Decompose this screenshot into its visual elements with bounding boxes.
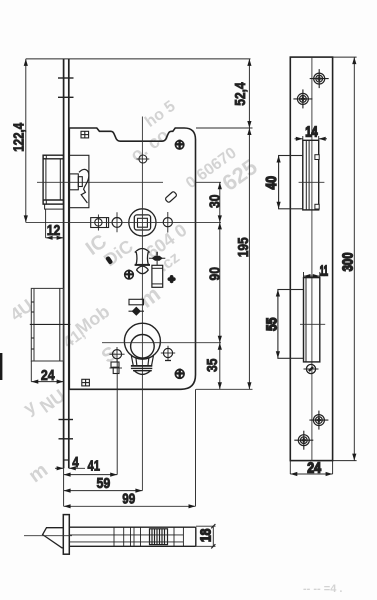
svg-text:4U: 4U	[6, 295, 36, 325]
dimension 59	[64, 489, 143, 493]
phillips screw top-right	[175, 140, 184, 149]
lock body outline	[69, 128, 195, 389]
latch spring lever curve	[79, 169, 89, 203]
top extension line	[26, 58, 251, 60]
screw hole bottom-1	[309, 411, 328, 430]
faceplate break ticks	[58, 78, 74, 460]
screw hole top-1	[310, 69, 329, 88]
latch centerline	[37, 181, 163, 183]
deadbolt opening 55 box	[276, 290, 304, 359]
svg-text:12: 12	[47, 222, 61, 239]
cylinder screw circle right	[161, 346, 175, 361]
svg-text:90: 90	[206, 267, 223, 281]
svg-text:24: 24	[307, 460, 321, 477]
faceplate bar	[63, 515, 69, 555]
tilted ink blob	[105, 256, 113, 265]
small circle above hub	[137, 155, 150, 163]
deadbolt head (protruding left, hidden lines)	[31, 288, 63, 361]
svg-text:41: 41	[88, 457, 101, 474]
svg-text:195: 195	[235, 237, 252, 257]
body bottom extension	[196, 388, 253, 390]
body top extension	[196, 127, 253, 129]
svg-text:35: 35	[204, 358, 221, 372]
dimension 30 90 35 column	[218, 182, 222, 389]
svg-text:40: 40	[263, 176, 280, 190]
square screw hole bottom-left	[82, 379, 90, 386]
svg-text:300: 300	[339, 252, 356, 271]
cylinder screw circle left	[109, 347, 124, 362]
dimension 4	[55, 466, 85, 470]
svg-text:m: m	[25, 459, 52, 487]
latch axis extension right	[196, 181, 222, 183]
tilted lever near hub	[165, 191, 177, 203]
plate center bend line	[311, 57, 313, 461]
bottom plan view	[24, 515, 216, 555]
latch tip bevel	[43, 528, 64, 548]
cylinder retainer bar and nut	[129, 299, 145, 316]
dimension 24 (right)	[290, 461, 332, 477]
dimension 12	[46, 209, 64, 240]
latch plan centerline	[24, 535, 72, 537]
internal dividers	[114, 527, 183, 546]
dimension 99	[64, 504, 196, 508]
svg-text:4: 4	[72, 454, 79, 471]
screw hole middle	[304, 364, 319, 373]
vertical centerline	[141, 117, 143, 491]
dimension 24 (left)	[31, 361, 63, 384]
deadbolt through plate	[304, 278, 320, 362]
latch guide box inside body	[69, 155, 89, 207]
svg-text:30: 30	[206, 195, 223, 209]
bottom extension lines	[63, 468, 65, 506]
coil spring block	[150, 529, 168, 545]
svg-text:24: 24	[41, 367, 55, 384]
latch bolt head (protruding left)	[43, 155, 63, 209]
fixing post circle (41mm axis)	[112, 212, 122, 232]
watermark	[6, 98, 342, 595]
retainer clip below left circle	[110, 362, 123, 374]
hub slot with pin	[91, 215, 109, 231]
circle right of hub	[163, 212, 172, 233]
dimension 41	[64, 473, 118, 477]
dimension 18	[196, 524, 216, 548]
square screw hole top-left	[81, 131, 89, 138]
svg-text:m: m	[134, 281, 165, 313]
svg-text:-- -- =4 .: -- -- =4 .	[303, 583, 342, 595]
screw hole bottom-2	[294, 431, 313, 450]
dark flower dot right	[168, 275, 176, 283]
scan edge artifact	[0, 353, 2, 380]
svg-text:11: 11	[320, 262, 328, 279]
dimensions of main view	[10, 59, 252, 509]
svg-text:55: 55	[263, 318, 280, 332]
small screw with cap right of detent	[149, 252, 165, 287]
main view group	[26, 59, 221, 491]
svg-text:52,4: 52,4	[232, 82, 249, 106]
dimension 14	[295, 136, 328, 141]
svg-text:122,4: 122,4	[10, 122, 27, 152]
detent pillar below hub	[135, 249, 150, 274]
svg-text:S: S	[98, 342, 122, 368]
follower hub	[129, 209, 156, 236]
latch bolt through plate	[303, 140, 319, 210]
svg-text:99: 99	[122, 491, 135, 508]
screw hole top-2	[293, 89, 312, 108]
dimension 11	[304, 272, 320, 278]
dimension 300	[333, 57, 357, 461]
lock case strip	[69, 527, 196, 546]
faceplate edge view (left)	[64, 59, 69, 468]
svg-text:14: 14	[305, 123, 318, 140]
phillips screw bottom-right	[175, 369, 185, 379]
svg-text:18: 18	[197, 529, 214, 543]
svg-text:o. co: o. co	[127, 125, 173, 166]
ringed flower dot left	[125, 270, 134, 279]
deadbolt centerline	[30, 323, 71, 325]
case inner lines	[69, 534, 183, 536]
svg-text:59: 59	[97, 475, 111, 492]
dimension 122,4	[24, 59, 28, 223]
plate outline	[290, 57, 332, 461]
right view: faceplate front	[263, 57, 356, 476]
hub horizontal centerline	[26, 221, 221, 223]
cylinder axis centerline	[102, 342, 221, 344]
latch opening 40 box	[277, 156, 303, 209]
dimension 52,4 and 195 column	[247, 59, 251, 389]
euro cylinder profile	[124, 323, 160, 374]
